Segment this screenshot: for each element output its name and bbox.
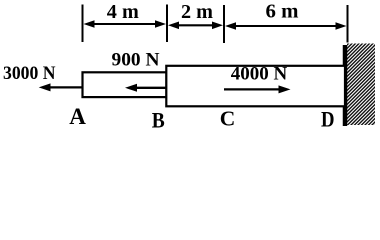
svg-text:3000 N: 3000 N [3, 63, 56, 84]
dimension tick at D [347, 5, 349, 43]
bar AB (small bar) [83, 72, 167, 97]
force arrow 4000 N [224, 85, 291, 93]
svg-text:D: D [321, 106, 335, 131]
force arrow 3000 N [39, 83, 82, 91]
force arrow 900 N [125, 84, 166, 92]
wall face line [343, 45, 348, 126]
dimension line 4 m [84, 20, 167, 28]
bar BD (large bar) [166, 66, 345, 107]
svg-text:B: B [152, 108, 165, 133]
svg-text:900 N: 900 N [112, 51, 161, 71]
svg-text:C: C [220, 106, 236, 130]
dimension tick at C [223, 5, 225, 43]
dimension tick at A [82, 5, 84, 43]
svg-text:A: A [69, 104, 86, 129]
dimension tick at B [166, 5, 168, 43]
svg-text:4000 N: 4000 N [231, 64, 288, 85]
svg-text:4 m: 4 m [107, 1, 139, 23]
svg-text:6 m: 6 m [266, 0, 299, 22]
svg-text:2 m: 2 m [181, 1, 213, 23]
dimension line 6 m [225, 22, 347, 30]
dimension line 2 m [168, 22, 223, 30]
wall hatching [347, 44, 375, 126]
